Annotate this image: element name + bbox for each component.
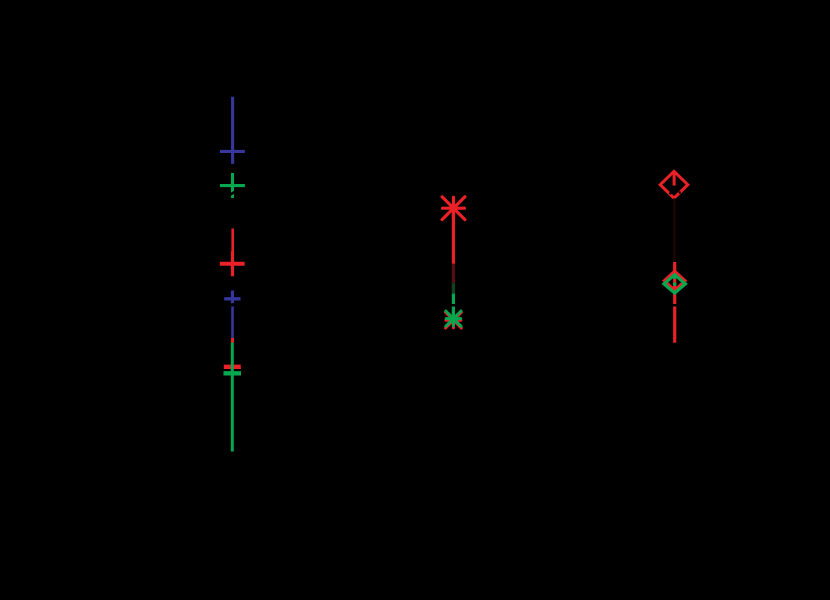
red errorbar line, cluster 2 [452,208,455,263]
dark green faded line, cluster 2 [452,283,455,293]
black notch over blue stroke [231,303,234,306]
red diamond marker large, cluster 3 [660,171,688,198]
blue errorbar lower line, cluster 1 [231,307,234,338]
red errorbar line inside diamond, cluster 3 [673,172,676,186]
blue errorbar upper line, cluster 1 [231,97,234,164]
red diamond marker small, cluster 3 [664,271,685,290]
dark red faded line, cluster 2 [452,264,455,283]
red asterisk center dot, cluster 2 [450,204,458,212]
blue plus marker small, cluster 1 [231,291,234,308]
black notch over red line, cluster 3 [673,304,677,307]
black notch over green line, cluster 2 [452,304,456,307]
red dash marker small, cluster 1 [224,365,241,369]
green asterisk center dot, cluster 2 [450,315,457,322]
green errorbar line, cluster 2 [452,294,455,319]
green dash marker small, cluster 1 [224,371,242,375]
black dot crossing diamond lower-left edge [669,192,672,195]
blue plus marker large, cluster 1 [220,150,245,153]
green diamond marker small, cluster 3 [664,275,686,293]
red line segment, cluster 1 [231,338,234,343]
red plus marker large, cluster 1 [231,251,234,276]
green errorbar long line, cluster 1 [231,343,234,452]
green asterisk marker small, cluster 2 [446,311,461,326]
black dot crossing diamond lower-right edge [679,191,681,193]
red errorbar upper line, cluster 1 [231,229,234,252]
red asterisk marker small, cluster 2 [446,312,462,328]
red errorbar line, cluster 3 [673,262,676,343]
faint dark red line, cluster 3 [673,198,676,262]
red asterisk marker large, cluster 2 [442,197,465,220]
black notch over green stroke [230,192,235,195]
green plus marker large, cluster 1 [231,173,234,198]
green diamond top vertex cap, cluster 3 [672,274,678,279]
green center dot, cluster 3 [673,282,677,286]
